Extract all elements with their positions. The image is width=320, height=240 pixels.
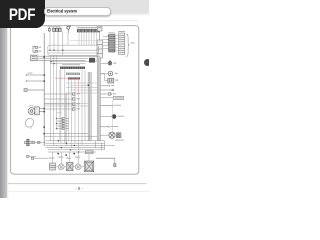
terminal T5: [100, 93, 111, 95]
label row 2: [77, 98, 80, 99]
relay K1: [89, 58, 95, 63]
connector pin C: [24, 89, 44, 92]
wire to J10: [100, 97, 113, 99]
battery B1: [67, 163, 74, 171]
decorative page frame (no label): [11, 26, 139, 175]
label row 1: [77, 93, 80, 94]
link wires between bottom components: [56, 166, 85, 168]
wire cross link: [70, 40, 98, 42]
label D1: [114, 63, 117, 64]
wire bottom right drop: [104, 141, 106, 150]
wire to G2: [100, 73, 108, 75]
wire pink W3: [56, 111, 62, 113]
wire with terminal row 1: [44, 93, 72, 95]
sensor S1: [112, 114, 117, 119]
terminal stub wire A: [26, 74, 44, 76]
node dots on J6 feeder: [56, 118, 57, 129]
pin boxes flasher F2: [32, 141, 40, 143]
label T1: [115, 105, 122, 106]
pin terminal row 4: [73, 108, 76, 110]
label above band J7: [62, 64, 80, 65]
pins T4: [112, 89, 115, 91]
wire trunk bundle 2: [97, 58, 101, 141]
lamp L4: [75, 164, 81, 170]
flasher F2: [25, 139, 32, 146]
terminal T3: [100, 85, 109, 87]
label T3: [111, 85, 114, 86]
terminal T4: [100, 89, 111, 91]
nodes on main bus: [43, 56, 45, 134]
labels above bottom components: [49, 157, 81, 159]
connector ladder J2: [108, 35, 115, 53]
gauge G2: [108, 71, 113, 76]
connector J1 main harness strip: [77, 29, 100, 32]
right edge circle button: [144, 59, 151, 66]
connector J12: [108, 78, 114, 83]
motor M1: [50, 163, 56, 170]
wire ground pins: [29, 156, 48, 158]
connector band J8: [66, 73, 80, 75]
label above ladder J2: [108, 32, 115, 33]
wire J5 row3: [37, 59, 86, 61]
connector column J6 stubs: [57, 119, 63, 129]
terminal stub wire B: [26, 80, 44, 82]
wire trunk bundle 1: [88, 72, 92, 141]
wire to D1: [100, 63, 108, 65]
pin terminal row 2: [73, 98, 76, 100]
label G2: [115, 73, 118, 74]
indicator lamp D1: [108, 60, 112, 65]
wire with terminal row 2: [44, 98, 72, 100]
page number: [73, 187, 86, 192]
connector band J7: [60, 67, 85, 70]
wire row y61.6: [50, 61, 100, 63]
label J12: [115, 80, 118, 81]
label above ladder J3: [118, 31, 125, 32]
header pill: [44, 7, 111, 16]
connector J11: [116, 133, 121, 138]
terminal T2: [100, 126, 109, 128]
ground lead G1: [96, 158, 116, 167]
wire to lamp L2: [100, 134, 109, 136]
lamp L3: [58, 164, 64, 170]
turn signal body outline: [25, 118, 34, 128]
wire with terminal row 3: [44, 103, 72, 105]
PDF badge: [0, 0, 45, 28]
lamp L1: [67, 26, 71, 33]
pin box T5: [108, 93, 111, 96]
wire drops to bottom components: [53, 152, 90, 164]
bottom bus rows: [44, 134, 115, 153]
node dots rows: [50, 61, 54, 64]
vertical wires center left: [51, 55, 57, 145]
label under lamp L2: [115, 140, 124, 141]
short vertical links bottom right: [96, 141, 102, 150]
label T2: [111, 126, 119, 127]
wire with terminal row 4: [44, 108, 72, 110]
label stub A: [28, 73, 33, 74]
wire rows mid left: [44, 103, 88, 106]
wire vertical right column: [112, 100, 114, 133]
label row 3: [77, 103, 80, 104]
label: top-left components: [48, 25, 72, 27]
wire harness J2 to J3: [115, 36, 119, 51]
wire pink W2: [78, 78, 80, 92]
wire harness U1 to J2: [103, 37, 109, 49]
ignition switch SW1: [53, 27, 62, 31]
vertical wires center: [60, 70, 85, 150]
fuse F1: [48, 27, 50, 32]
connector J4 2-pin: [33, 46, 38, 52]
label T5: [113, 93, 116, 94]
node junction on trunk 1: [88, 85, 90, 86]
label right of brace: [130, 42, 134, 43]
label row 4: [77, 108, 80, 109]
wire drops from top row into S2: [50, 31, 68, 55]
wire J5 row2: [37, 57, 88, 59]
label block bottom: [85, 150, 94, 154]
pins of connector J6: [62, 118, 64, 130]
switch assembly box S2: [48, 45, 99, 55]
wire to S1: [100, 116, 111, 118]
connector band J9: [68, 77, 80, 79]
wire flasher to bus rows: [35, 141, 46, 143]
main bus wire: [43, 33, 45, 146]
wire K1 to trunk: [95, 59, 97, 61]
labels of connector J6: [66, 118, 69, 129]
lamp L2: [109, 132, 115, 138]
wire to J12: [100, 74, 107, 81]
label S1: [118, 116, 125, 117]
connector J5 3-pin: [31, 55, 38, 61]
wire drops from connector J1: [79, 32, 97, 45]
wire J5 row1: [37, 55, 100, 57]
CDI unit U2: [85, 161, 94, 172]
wire horn to bus: [39, 109, 44, 112]
junction marks bottom: [57, 140, 79, 156]
terminal T1: [100, 105, 113, 107]
horn H1: [28, 105, 39, 115]
connector J10: [114, 96, 124, 99]
connector ladder J3: [119, 33, 125, 55]
label above regulator U1: [97, 26, 103, 27]
ground pins left: [26, 155, 33, 159]
pin terminal row 1: [73, 93, 76, 95]
wire pink W1: [55, 77, 79, 79]
wire rows mid right: [66, 83, 97, 93]
regulator U1: [97, 28, 103, 58]
wire row y63.6: [50, 63, 86, 65]
node dots in S2: [49, 50, 63, 51]
brace grouping J3: [126, 34, 129, 57]
pin labels J4: [39, 47, 41, 52]
pin terminal row 3: [73, 103, 76, 105]
label above connector J1: [77, 27, 97, 28]
